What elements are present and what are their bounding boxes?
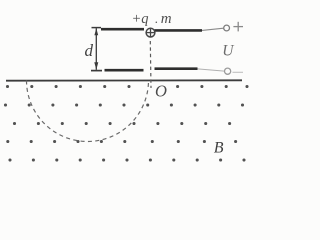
svg-text:.: . bbox=[155, 11, 158, 26]
dimension d: down arrowhead bbox=[94, 62, 98, 70]
svg-text:O: O bbox=[155, 82, 167, 101]
label +q , m bbox=[132, 11, 172, 27]
dashed semicircular path in field bbox=[27, 81, 149, 142]
dimension d: bottom T-bar bbox=[91, 70, 102, 72]
capacitor top plate left segment bbox=[101, 28, 144, 31]
dimension d: vertical line bbox=[95, 28, 97, 70]
capacitor top plate right segment bbox=[155, 29, 203, 32]
dimension d: up arrowhead bbox=[94, 28, 98, 35]
- terminal circle bbox=[225, 68, 231, 74]
capacitor bottom plate left segment bbox=[105, 69, 144, 72]
magnetic field dots row 1 bbox=[6, 85, 249, 88]
- polarity sign bbox=[233, 71, 244, 73]
magnetic field dots row 5 bbox=[8, 158, 245, 161]
magnetic field dots row 3 bbox=[13, 122, 231, 125]
capacitor bottom plate right segment bbox=[155, 67, 198, 70]
dimension d: top T-bar bbox=[92, 27, 102, 29]
svg-text:m: m bbox=[161, 11, 172, 27]
svg-text:d: d bbox=[85, 41, 94, 60]
+ terminal circle bbox=[224, 25, 230, 31]
wire from top plate to + terminal bbox=[202, 28, 224, 30]
svg-text:U: U bbox=[222, 42, 235, 59]
dashed vertical line from charge through plate gap to O bbox=[149, 41, 152, 88]
wire from bottom plate to - terminal bbox=[198, 69, 225, 71]
boundary line (field region top edge) bbox=[6, 79, 242, 81]
svg-text:+q: +q bbox=[132, 11, 149, 27]
svg-text:B: B bbox=[214, 140, 224, 157]
magnetic field dots row 2 bbox=[4, 103, 244, 106]
magnetic field dots row 4 bbox=[6, 140, 237, 143]
+ polarity sign bbox=[233, 22, 243, 32]
charge symbol +q (circle with cross) bbox=[146, 28, 156, 38]
